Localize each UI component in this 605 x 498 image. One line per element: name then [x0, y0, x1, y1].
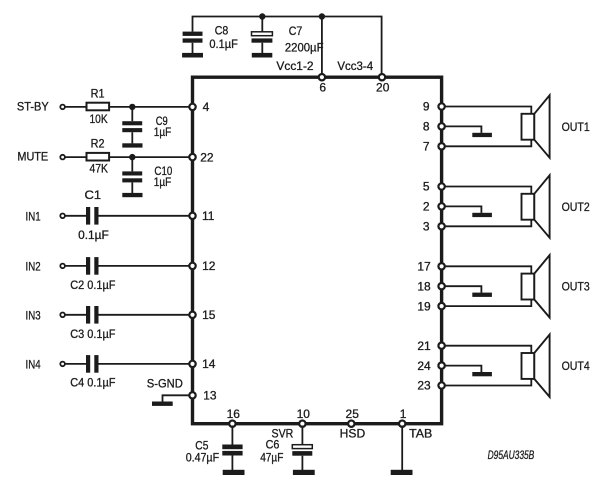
pin 8 [423, 120, 445, 134]
node IN4 terminal [26, 358, 65, 372]
wire: C2 to IC [99, 265, 193, 267]
svg-text:10K: 10K [90, 112, 108, 126]
svg-text:15: 15 [202, 308, 216, 322]
svg-text:C1: C1 [85, 188, 102, 202]
svg-text:OUT2: OUT2 [562, 200, 590, 214]
pin 4 [189, 100, 209, 114]
svg-text:47K: 47K [90, 162, 109, 176]
net label SVR [272, 426, 294, 440]
net label Vcc1-2 [276, 59, 314, 73]
pin 19 [417, 299, 444, 313]
svg-text:Vcc3-4: Vcc3-4 [337, 59, 373, 73]
pin 3 [423, 220, 445, 234]
svg-text:12: 12 [202, 259, 216, 273]
node MUTE terminal [17, 150, 65, 164]
wire: Vcc supply top rail [193, 17, 382, 78]
pin 1 [399, 407, 407, 427]
wire: speaker loop OUT2 [442, 187, 532, 227]
svg-text:OUT4: OUT4 [562, 359, 590, 373]
node S-GND signal ground [147, 376, 183, 390]
wire: speaker loop OUT3 [442, 266, 532, 306]
svg-text:ST-BY: ST-BY [17, 99, 49, 113]
svg-text:HSD: HSD [340, 426, 366, 440]
pin 20 [376, 74, 390, 94]
ground (TAB) [391, 470, 413, 475]
ground (S-GND) [152, 402, 173, 406]
ground (C9) [122, 143, 142, 147]
svg-text:25: 25 [346, 407, 360, 421]
svg-text:16: 16 [227, 407, 241, 421]
svg-text:14: 14 [202, 357, 216, 371]
node OUT3 label [562, 280, 590, 294]
capacitor C5 [186, 426, 243, 471]
svg-text:C6: C6 [266, 437, 280, 451]
capacitor C1 [78, 188, 109, 242]
wire: OUT3 mid pin to ground [442, 286, 482, 293]
resistor R1 [87, 86, 110, 126]
svg-text:20: 20 [376, 80, 390, 94]
svg-text:6: 6 [319, 80, 326, 94]
ground (OUT1 return) [472, 133, 492, 137]
wire: C3 to IC [99, 314, 193, 316]
pin 18 [417, 279, 444, 293]
pin 13 [189, 389, 217, 403]
wire: OUT4 mid pin to ground [442, 366, 482, 373]
svg-text:R2: R2 [91, 137, 105, 151]
junction R1/C9 [129, 104, 135, 110]
wire: IN1 to C1 [65, 215, 86, 217]
pin 23 [417, 379, 444, 393]
wire: MUTE to R2 [65, 156, 87, 158]
svg-text:1: 1 [400, 407, 407, 421]
svg-text:10: 10 [297, 407, 311, 421]
svg-text:2200µF: 2200µF [285, 41, 324, 55]
svg-text:C3 0.1µF: C3 0.1µF [70, 327, 115, 341]
svg-text:OUT3: OUT3 [562, 280, 590, 294]
node OUT2 label [562, 200, 590, 214]
pin 15 [189, 308, 215, 322]
svg-text:8: 8 [423, 120, 430, 134]
speaker LS3 [522, 255, 550, 317]
svg-text:9: 9 [423, 100, 430, 114]
svg-text:5: 5 [423, 180, 430, 194]
ground (C6) [293, 470, 315, 475]
wire: IN4 to C4 [65, 363, 86, 365]
pin 7 [423, 140, 445, 154]
junction at pin 6 drop [319, 13, 325, 19]
svg-text:1µF: 1µF [154, 175, 172, 189]
junction R2/C10 [129, 154, 135, 160]
svg-text:IN2: IN2 [26, 260, 41, 274]
svg-text:1µF: 1µF [154, 125, 172, 139]
capacitor C10 [122, 157, 172, 193]
svg-text:TAB: TAB [409, 426, 432, 440]
pin 14 [189, 357, 215, 371]
wire: OUT2 mid pin to ground [442, 206, 482, 213]
wire: R1 to pin 4 [109, 106, 192, 108]
ground (OUT2 return) [472, 213, 492, 217]
pin 11 [189, 209, 214, 223]
ground (C8) [182, 53, 203, 58]
capacitor C4 [70, 355, 115, 390]
svg-text:19: 19 [417, 299, 431, 313]
node IN1 terminal [26, 209, 65, 223]
pin 16 [227, 407, 241, 427]
svg-text:MUTE: MUTE [17, 150, 48, 164]
svg-text:C2 0.1µF: C2 0.1µF [70, 278, 115, 292]
svg-text:24: 24 [417, 359, 431, 373]
svg-text:0.47µF: 0.47µF [186, 450, 219, 464]
wire: C4 to IC [99, 363, 193, 365]
net label Vcc3-4 [337, 59, 373, 73]
speaker LS4 [522, 335, 550, 397]
svg-text:IN3: IN3 [26, 308, 41, 322]
node OUT4 label [562, 359, 590, 373]
wire: R2 to pin 22 [109, 156, 192, 158]
svg-text:17: 17 [417, 260, 431, 274]
svg-text:23: 23 [417, 379, 431, 393]
pin 25 [346, 407, 360, 427]
wire: pin 1 to ground [401, 426, 403, 471]
svg-text:7: 7 [423, 140, 430, 154]
svg-text:22: 22 [200, 150, 214, 164]
capacitor C8 [183, 24, 238, 54]
wire: pin 6 supply drop [321, 17, 323, 78]
ground (OUT4 return) [472, 372, 492, 376]
pin 17 [417, 260, 444, 274]
node OUT1 label [562, 120, 590, 134]
wire: C1 to IC [99, 215, 193, 217]
svg-text:3: 3 [423, 220, 430, 234]
capacitor C2 [70, 257, 115, 292]
node IN3 terminal [26, 308, 65, 322]
wire: OUT1 mid pin to ground [442, 126, 482, 132]
pin 21 [417, 339, 444, 353]
ground (C10) [122, 193, 142, 197]
node ST-BY terminal [17, 99, 65, 113]
svg-text:13: 13 [203, 389, 217, 403]
net label TAB [409, 426, 432, 440]
pin 9 [423, 100, 445, 114]
capacitor C6 [260, 426, 312, 471]
speaker LS1 [522, 95, 550, 157]
pin 2 [423, 200, 445, 214]
svg-text:IN4: IN4 [26, 358, 41, 372]
svg-text:47µF: 47µF [260, 451, 283, 465]
note D95AU335B [488, 448, 535, 462]
pin 24 [417, 359, 444, 373]
svg-text:C7: C7 [289, 24, 303, 38]
pin 12 [189, 259, 215, 273]
pin 22 [189, 150, 214, 164]
speaker LS2 [522, 175, 550, 237]
wire: pin 13 to S-GND [163, 395, 193, 401]
wire: IN3 to C3 [65, 314, 86, 316]
ground (C5) [223, 470, 245, 475]
svg-text:D95AU335B: D95AU335B [488, 448, 535, 462]
pin 6 [319, 74, 327, 94]
svg-text:18: 18 [417, 279, 431, 293]
svg-text:S-GND: S-GND [147, 376, 183, 390]
svg-text:0.1µF: 0.1µF [209, 37, 238, 51]
resistor R2 [87, 137, 110, 176]
svg-text:11: 11 [202, 209, 215, 223]
wire: speaker loop OUT4 [442, 346, 532, 386]
wire: ST-BY to R1 [65, 106, 87, 108]
junction at C7 top [259, 13, 265, 19]
svg-text:R1: R1 [91, 86, 105, 100]
capacitor C7 [252, 17, 324, 55]
svg-text:2: 2 [423, 200, 430, 214]
capacitor C3 [70, 306, 115, 341]
op-amp U1 quad power amplifier IC body [193, 77, 442, 424]
svg-text:4: 4 [203, 100, 210, 114]
svg-text:IN1: IN1 [26, 209, 41, 223]
ground (OUT3 return) [472, 293, 492, 297]
pin 10 [297, 407, 311, 427]
capacitor C9 [122, 107, 171, 143]
wire: speaker loop OUT1 [442, 107, 532, 147]
svg-text:Vcc1-2: Vcc1-2 [276, 59, 314, 73]
pin 5 [423, 180, 445, 194]
wire: IN2 to C2 [65, 265, 86, 267]
svg-text:C4 0.1µF: C4 0.1µF [70, 376, 115, 390]
net label HSD [340, 426, 366, 440]
svg-text:OUT1: OUT1 [562, 120, 590, 134]
svg-text:21: 21 [417, 339, 431, 353]
ground (C7) [252, 53, 272, 58]
svg-text:0.1µF: 0.1µF [78, 228, 109, 242]
svg-text:C8: C8 [215, 24, 229, 38]
node IN2 terminal [26, 260, 65, 274]
